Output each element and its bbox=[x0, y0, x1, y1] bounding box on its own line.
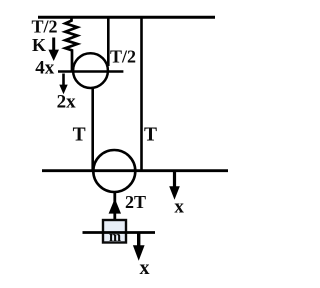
axle bar of pulley P1 bbox=[58, 70, 123, 73]
middle reference line through pulley P2 axle bbox=[42, 169, 228, 172]
svg-text:T: T bbox=[73, 125, 86, 146]
svg-text:T/2: T/2 bbox=[110, 47, 136, 67]
wire: rope from ceiling to right side of pulley P1 bbox=[107, 17, 110, 66]
svg-text:x: x bbox=[140, 257, 150, 279]
wire: rope from ceiling down right side of pulley P2 bbox=[140, 17, 143, 170]
wire: rope from bottom of pulley P2 to mass m bbox=[113, 192, 116, 221]
svg-text:4x: 4x bbox=[35, 58, 55, 79]
mass m box bbox=[103, 220, 126, 243]
arrow 2x (below pulley P1 axle) bbox=[62, 74, 65, 87]
arrow 2T (upward, on rope above mass) bbox=[109, 199, 121, 214]
svg-text:m: m bbox=[109, 229, 121, 245]
svg-text:K: K bbox=[32, 35, 46, 55]
svg-text:2x: 2x bbox=[57, 91, 77, 112]
svg-text:x: x bbox=[174, 196, 184, 217]
spring K bbox=[65, 18, 77, 72]
svg-text:T/2: T/2 bbox=[32, 17, 58, 37]
pulley P2 (large pulley) bbox=[93, 150, 135, 192]
line through mass m bbox=[83, 231, 156, 234]
pulley P1 (small movable pulley) bbox=[73, 53, 108, 88]
ceiling bbox=[38, 16, 215, 19]
wire: rope from bottom of pulley P1 to pulley P2 bbox=[91, 88, 94, 171]
arrow 4x (spring extension, beside K) bbox=[52, 38, 55, 52]
svg-text:2T: 2T bbox=[125, 192, 146, 212]
arrow x (right, below middle line) bbox=[173, 171, 176, 188]
arrow x (below mass line) bbox=[137, 233, 140, 247]
svg-text:T: T bbox=[144, 125, 157, 146]
